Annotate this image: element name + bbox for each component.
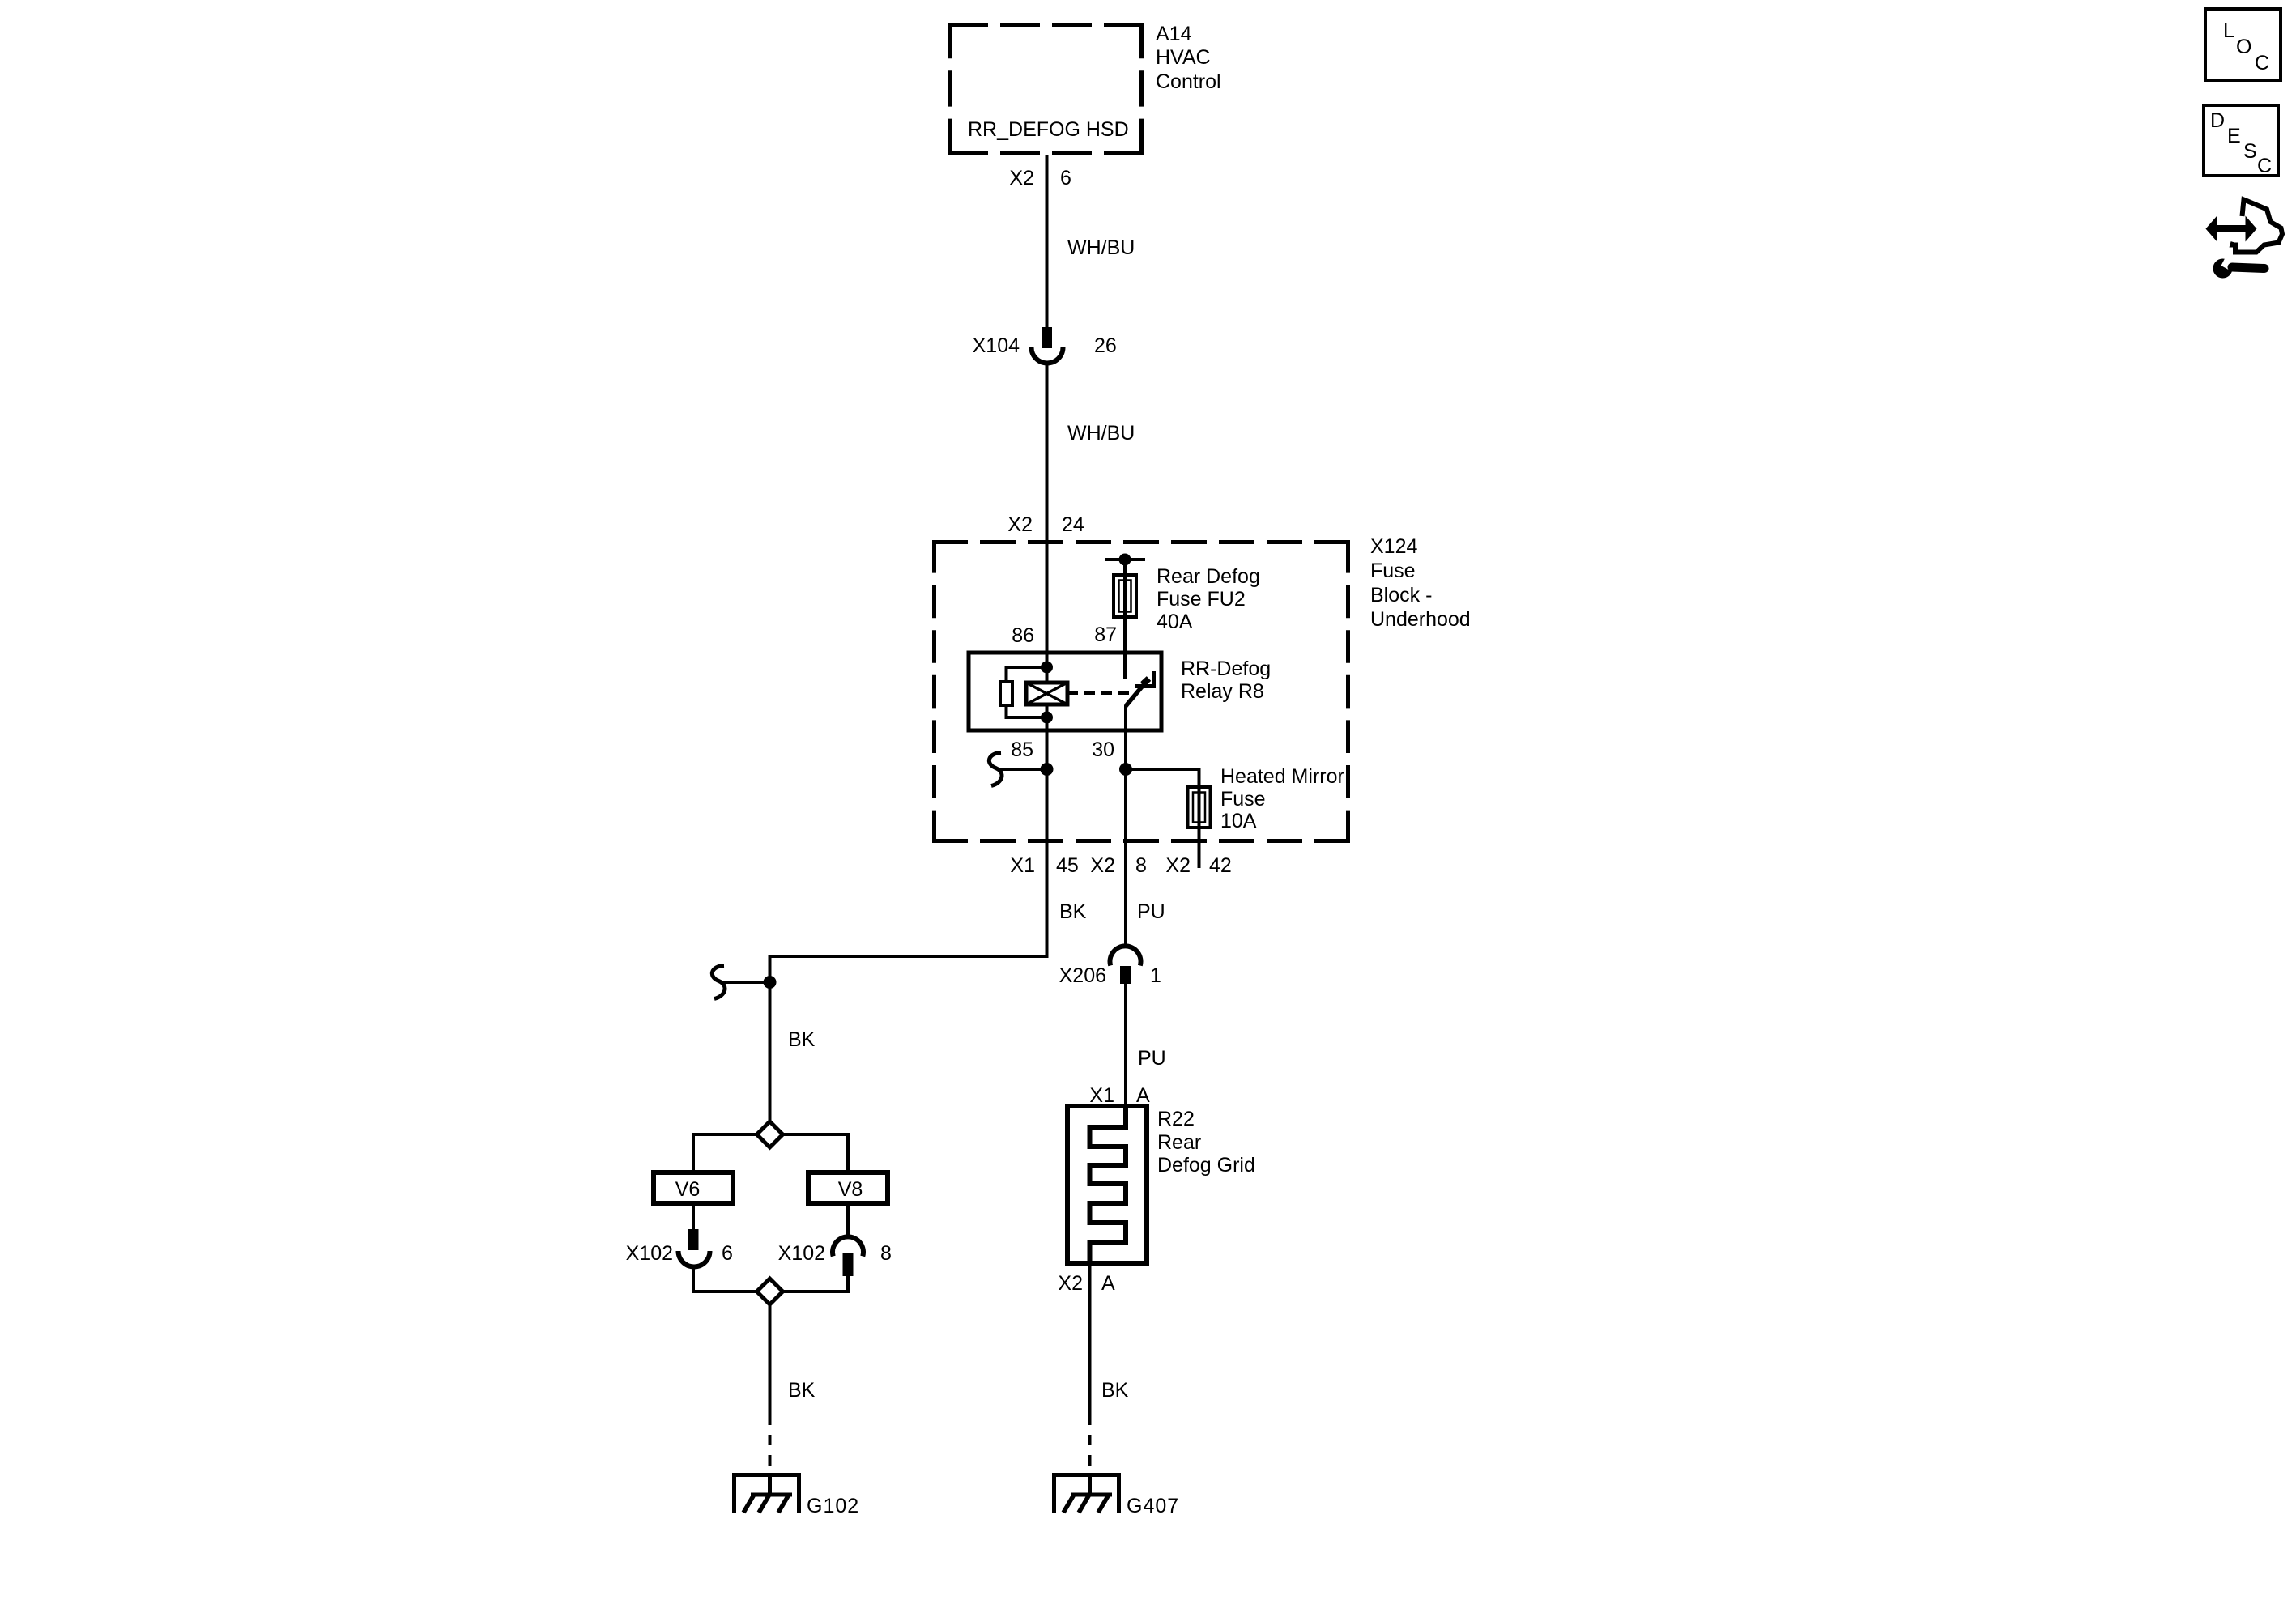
wire to heated mirror fuse bbox=[1126, 769, 1199, 787]
svg-text:8: 8 bbox=[880, 1242, 892, 1265]
wire PU from X2-8 to X206 bbox=[1124, 843, 1127, 947]
svg-text:E: E bbox=[2227, 125, 2241, 147]
svg-text:87: 87 bbox=[1094, 623, 1117, 646]
wrench icon bbox=[2213, 256, 2265, 279]
pin label X2 A bbox=[1058, 1272, 1115, 1295]
bottom pin labels X1 45 X2 8 X2 42 bbox=[1010, 854, 1231, 877]
node dot FU2 top bbox=[1119, 554, 1131, 566]
relay switch arm tip bbox=[1143, 679, 1149, 684]
svg-text:X102: X102 bbox=[778, 1242, 825, 1265]
A14 labels bbox=[968, 23, 1221, 141]
svg-text:45: 45 bbox=[1056, 854, 1079, 877]
DESC icon box bbox=[2204, 105, 2278, 176]
wire inside block down to relay pin 86 bbox=[1046, 540, 1049, 653]
wire A14 pin 6 to X104 bbox=[1046, 155, 1049, 327]
splice diamond top bbox=[757, 1121, 783, 1147]
svg-text:30: 30 bbox=[1092, 738, 1114, 761]
node dot coil bottom bbox=[1041, 712, 1053, 724]
relay resistor bbox=[1000, 682, 1012, 705]
svg-text:X2: X2 bbox=[1007, 513, 1033, 536]
svg-text:PU: PU bbox=[1138, 1047, 1166, 1070]
svg-text:RR_DEFOG HSD: RR_DEFOG HSD bbox=[968, 118, 1129, 141]
svg-text:10A: 10A bbox=[1220, 810, 1257, 832]
wire X206 to R22 bbox=[1124, 984, 1127, 1106]
wire labels BK PU bbox=[1059, 900, 1165, 923]
svg-text:Relay R8: Relay R8 bbox=[1181, 680, 1264, 703]
HVAC control module A14 dashed box bbox=[948, 23, 1144, 155]
svg-text:V8: V8 bbox=[838, 1178, 863, 1201]
dashed wire to ground G407 bbox=[1088, 1435, 1092, 1466]
svg-text:Fuse FU2: Fuse FU2 bbox=[1157, 588, 1246, 611]
svg-text:V6: V6 bbox=[675, 1178, 701, 1201]
svg-text:Fuse: Fuse bbox=[1370, 560, 1416, 582]
relay pin 30 wire bbox=[1124, 705, 1127, 730]
svg-text:42: 42 bbox=[1209, 854, 1232, 877]
svg-text:C: C bbox=[2257, 155, 2272, 177]
wire heated mirror fuse to X2-42 bbox=[1198, 828, 1201, 868]
X124 labels bbox=[1370, 535, 1471, 631]
wire R22 to G407 bbox=[1088, 1263, 1092, 1425]
svg-text:O: O bbox=[2236, 36, 2251, 58]
svg-text:Fuse: Fuse bbox=[1220, 788, 1266, 811]
relay coil branch wire 86 bbox=[1046, 653, 1049, 683]
wire X102-8 down bbox=[783, 1276, 849, 1291]
svg-text:BK: BK bbox=[1059, 900, 1087, 923]
svg-text:Underhood: Underhood bbox=[1370, 608, 1471, 631]
svg-text:G407: G407 bbox=[1127, 1495, 1179, 1517]
svg-text:6: 6 bbox=[722, 1242, 733, 1265]
relay fixed contact bbox=[1135, 671, 1154, 687]
vehicle silhouette icon bbox=[2233, 200, 2283, 253]
fuse FU2 supply bar bbox=[1105, 558, 1145, 561]
svg-text:Control: Control bbox=[1156, 70, 1221, 93]
wire label BK bbox=[788, 1379, 816, 1402]
node dot 30 junction bbox=[1119, 763, 1132, 776]
relay coil bbox=[1026, 683, 1067, 704]
X102 pin label 8 bbox=[778, 1242, 892, 1265]
wire relay 85 down bbox=[1046, 730, 1049, 843]
svg-text:Defog Grid: Defog Grid bbox=[1157, 1154, 1255, 1177]
heated mirror fuse labels bbox=[1220, 765, 1344, 832]
wire BK from X1-45 to ground branch bbox=[770, 843, 1047, 1121]
rear defog grid R22 box bbox=[1067, 1106, 1147, 1263]
wire to ground G102 bbox=[769, 1304, 772, 1425]
continuation squiggle bbox=[989, 753, 1002, 786]
dashed wire to ground G102 bbox=[769, 1435, 772, 1466]
continuation squiggle bbox=[712, 966, 725, 999]
relay pin 87 stub bbox=[1123, 653, 1127, 679]
svg-text:S: S bbox=[2243, 140, 2257, 163]
LOC letters bbox=[2223, 19, 2269, 74]
stub wire to other circuits bbox=[997, 768, 1047, 771]
DESC letters bbox=[2210, 109, 2272, 177]
svg-text:A14: A14 bbox=[1156, 23, 1192, 45]
svg-text:BK: BK bbox=[788, 1379, 816, 1402]
diode V6 box bbox=[654, 1172, 733, 1203]
svg-text:24: 24 bbox=[1062, 513, 1084, 536]
wire X104 to fuse block X2-24 bbox=[1046, 364, 1049, 540]
pin label X2 6 bbox=[1009, 167, 1071, 189]
relay R8 labels bbox=[1181, 657, 1271, 703]
svg-text:1: 1 bbox=[1150, 964, 1161, 987]
ground G102 bbox=[732, 1473, 801, 1513]
svg-text:85: 85 bbox=[1011, 738, 1033, 761]
connector X206 pin 1 bbox=[1110, 946, 1141, 984]
wire to V8 bbox=[783, 1134, 849, 1172]
wire V6 to X102-6 bbox=[692, 1203, 695, 1229]
node dot splice bbox=[764, 976, 777, 989]
svg-text:C: C bbox=[2255, 52, 2269, 74]
wire label WH/BU bbox=[1067, 422, 1135, 445]
svg-text:X2: X2 bbox=[1090, 854, 1115, 877]
svg-text:X1: X1 bbox=[1089, 1084, 1114, 1107]
ground G407 bbox=[1052, 1473, 1121, 1513]
svg-text:6: 6 bbox=[1060, 167, 1071, 189]
svg-text:40A: 40A bbox=[1157, 611, 1193, 633]
connector X104 pin 26 bbox=[1032, 327, 1063, 364]
svg-text:D: D bbox=[2210, 109, 2225, 132]
X104 pin label 26 bbox=[973, 334, 1117, 357]
pin label X2 24 bbox=[1007, 513, 1084, 536]
svg-text:X2: X2 bbox=[1165, 854, 1191, 877]
svg-text:X2: X2 bbox=[1009, 167, 1034, 189]
svg-text:X206: X206 bbox=[1059, 964, 1106, 987]
connector X102 pin 6 bbox=[679, 1229, 710, 1267]
svg-text:X104: X104 bbox=[973, 334, 1020, 357]
svg-text:X2: X2 bbox=[1058, 1272, 1083, 1295]
svg-text:RR-Defog: RR-Defog bbox=[1181, 657, 1271, 680]
wire label PU bbox=[1138, 1047, 1166, 1070]
wire coil bottom to pin 85 bbox=[1046, 704, 1049, 730]
relay actuation dashed link bbox=[1067, 691, 1132, 695]
LOC icon box bbox=[2205, 9, 2281, 80]
wire relay 30 down bbox=[1124, 730, 1127, 843]
X102 pin label 6 bbox=[626, 1242, 733, 1265]
V6 V8 labels bbox=[675, 1178, 863, 1201]
relay resistor parallel wires bbox=[1007, 667, 1047, 682]
splice diamond bottom bbox=[757, 1279, 783, 1304]
R22 heater grid element bbox=[1090, 1106, 1127, 1263]
svg-text:8: 8 bbox=[1135, 854, 1147, 877]
relay R8 box bbox=[969, 653, 1161, 730]
svg-text:BK: BK bbox=[788, 1028, 816, 1051]
svg-text:Block -: Block - bbox=[1370, 584, 1432, 606]
node dot 85 junction bbox=[1041, 763, 1054, 776]
heated mirror fuse bbox=[1188, 787, 1211, 828]
wire label BK bbox=[788, 1028, 816, 1051]
pin labels 86 87 bbox=[1012, 623, 1117, 647]
wire label BK bbox=[1101, 1379, 1129, 1402]
stub wire to other grounds bbox=[720, 981, 770, 984]
svg-text:WH/BU: WH/BU bbox=[1067, 236, 1135, 259]
svg-text:HVAC: HVAC bbox=[1156, 46, 1211, 69]
svg-text:WH/BU: WH/BU bbox=[1067, 422, 1135, 445]
wire to V6 bbox=[693, 1134, 757, 1172]
wire label WH/BU bbox=[1067, 236, 1135, 259]
pin label X1 A bbox=[1089, 1084, 1150, 1107]
svg-text:A: A bbox=[1136, 1084, 1150, 1107]
svg-text:X1: X1 bbox=[1010, 854, 1035, 877]
svg-text:X102: X102 bbox=[626, 1242, 673, 1265]
svg-text:Rear Defog: Rear Defog bbox=[1157, 565, 1260, 588]
node dot coil top bbox=[1041, 662, 1053, 674]
svg-text:A: A bbox=[1101, 1272, 1115, 1295]
diode V8 box bbox=[808, 1172, 888, 1203]
pin labels 85 30 bbox=[1011, 738, 1114, 761]
svg-text:G102: G102 bbox=[807, 1495, 859, 1517]
R22 labels bbox=[1157, 1108, 1255, 1177]
svg-text:Heated Mirror: Heated Mirror bbox=[1220, 765, 1344, 788]
svg-text:L: L bbox=[2223, 19, 2234, 42]
svg-text:Rear: Rear bbox=[1157, 1131, 1201, 1154]
relay switch arm bbox=[1126, 681, 1147, 706]
wire X102-6 down bbox=[693, 1267, 757, 1291]
connector X102 pin 8 bbox=[833, 1236, 863, 1276]
svg-text:BK: BK bbox=[1101, 1379, 1129, 1402]
svg-text:PU: PU bbox=[1137, 900, 1165, 923]
wire to fuse FU2 bbox=[1123, 560, 1127, 575]
fuse block X124 dashed box bbox=[932, 540, 1350, 843]
wire V8 to X102-8 bbox=[846, 1203, 850, 1237]
svg-text:86: 86 bbox=[1012, 624, 1034, 647]
svg-text:26: 26 bbox=[1094, 334, 1117, 357]
wire fuse FU2 to relay pin 87 bbox=[1123, 617, 1127, 653]
svg-text:X124: X124 bbox=[1370, 535, 1417, 558]
X206 pin label 1 bbox=[1059, 964, 1161, 987]
fuse FU2 bbox=[1114, 575, 1136, 617]
double arrow bbox=[2206, 216, 2257, 242]
svg-text:R22: R22 bbox=[1157, 1108, 1195, 1130]
FU2 labels bbox=[1157, 565, 1260, 633]
